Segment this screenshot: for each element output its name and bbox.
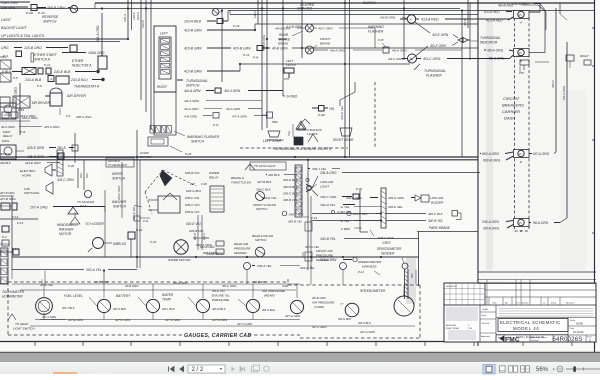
next page button (disabled) [232, 367, 236, 372]
junction box P-9 [3, 51, 22, 58]
bus top y10 right [228, 10, 594, 12]
left bottom extra wires [0, 191, 15, 270]
svg-text:427-L GRN: 427-L GRN [312, 325, 327, 329]
wire 13-A ORG vertical [560, 42, 567, 223]
ether injector A [72, 52, 107, 69]
svg-text:4I4-A GRN: 4I4-A GRN [184, 89, 201, 93]
svg-text:30I-S BLK: 30I-S BLK [338, 317, 352, 321]
svg-text:350-A: 350-A [57, 146, 66, 150]
vertical x404 [403, 0, 405, 60]
svg-text:30I-N BLK: 30I-N BLK [262, 308, 276, 312]
svg-text:FUEL LEVEL: FUEL LEVEL [64, 294, 83, 298]
page number box [188, 365, 225, 373]
svg-text:P-23: P-23 [136, 228, 142, 232]
svg-text:X: X [410, 18, 412, 22]
wire 243-A BLB row [24, 76, 104, 89]
front low-air switch [253, 192, 276, 212]
wire 340-B YEL right [340, 219, 443, 223]
svg-text:YY: YY [340, 302, 344, 306]
svg-text:(Ltrs): (Ltrs) [551, 302, 556, 305]
right angle bracket y212 [360, 190, 368, 232]
svg-text:4I3-C GRN: 4I3-C GRN [388, 57, 404, 61]
vertical 120 pair [123, 0, 136, 39]
svg-text:Scale: Scale [570, 320, 576, 322]
svg-text:SWITCH: SWITCH [363, 1, 377, 5]
svg-text:SENDER: SENDER [316, 258, 330, 262]
svg-text:WATER: WATER [162, 293, 174, 297]
svg-text:605-C VIO: 605-C VIO [185, 203, 200, 207]
svg-text:P-14: P-14 [311, 216, 317, 220]
svg-text:THERMOSTAT A: THERMOSTAT A [74, 85, 100, 89]
svg-text:336-B YEL: 336-B YEL [283, 198, 298, 202]
svg-text:PRESSURE: PRESSURE [234, 247, 252, 251]
sheet right outer border line [592, 0, 595, 352]
lamp triangle right [297, 124, 305, 130]
gauge battery [138, 297, 160, 313]
svg-text:ELECTRIC: ELECTRIC [20, 169, 36, 173]
svg-text:USED: USED [382, 241, 391, 245]
svg-text:NONE: NONE [576, 323, 583, 326]
wire 340-B YEL [320, 237, 419, 241]
svg-text:30I-E ORG: 30I-E ORG [312, 296, 327, 300]
svg-text:P-I4: P-I4 [253, 56, 259, 60]
vertical bus x141 [136, 0, 141, 100]
title block frame [444, 280, 596, 343]
bus top y8 [0, 8, 460, 10]
svg-text:340-F: 340-F [551, 80, 555, 88]
black wedge arrow [160, 170, 172, 186]
vertical bus x302 [301, 0, 303, 58]
mr driver box [0, 96, 51, 108]
wire P-16 mid [253, 56, 404, 62]
svg-text:525: 525 [410, 273, 414, 278]
svg-text:603-E VIO: 603-E VIO [186, 222, 201, 226]
svg-text:2 / 2: 2 / 2 [192, 367, 204, 373]
wire 415 vertical [463, 0, 468, 28]
svg-text:425-B GRN: 425-B GRN [27, 155, 45, 159]
svg-text:Checked: Checked [481, 323, 489, 325]
svg-text:I025 BLK: I025 BLK [108, 159, 121, 163]
wire 427-L GRN [312, 325, 327, 329]
svg-text:HOURMETER: HOURMETER [2, 295, 23, 299]
tachometer hourmeter label [2, 290, 25, 299]
svg-text:336-A ORG: 336-A ORG [320, 171, 337, 175]
svg-text:336-G ORG: 336-G ORG [388, 196, 405, 200]
to backup lights note [300, 119, 322, 136]
svg-text:P-33: P-33 [150, 240, 156, 244]
electric horn [20, 164, 56, 194]
svg-text:LIGHT: LIGHT [1, 18, 12, 22]
wire 402-D BLK [257, 178, 309, 184]
svg-text:427-K GRN: 427-K GRN [115, 318, 131, 322]
left edge connectors mid [0, 197, 38, 232]
vertical x419 boundary [418, 232, 420, 286]
svg-text:A: A [51, 77, 53, 81]
right rear turnsignal lamp [566, 55, 574, 68]
turnsignals brake lights label [272, 147, 332, 151]
wire horizontal y284 [12, 284, 300, 290]
svg-text:427-A GRN: 427-A GRN [360, 330, 376, 334]
svg-text:SWITCH: SWITCH [256, 207, 268, 211]
previous view button (disabled) [252, 365, 260, 372]
svg-text:TURNSIGNAL: TURNSIGNAL [186, 79, 208, 83]
circuit breakers carrier dash label [502, 96, 524, 121]
svg-text:30I-C ORG: 30I-C ORG [222, 284, 237, 288]
svg-text:56%: 56% [536, 367, 549, 373]
svg-text:FRACTIONAL: FRACTIONAL [446, 327, 460, 330]
svg-text:P-14: P-14 [358, 270, 364, 274]
svg-text:TO HCM LIGHT: TO HCM LIGHT [254, 164, 277, 168]
svg-text:Approved: Approved [481, 335, 490, 338]
wire 414-A GRN [184, 88, 283, 93]
previous page button [180, 367, 184, 372]
svg-text:SWITCH: SWITCH [112, 177, 126, 181]
wire 425-E GRN [27, 146, 74, 150]
svg-text:30I-E VIO: 30I-E VIO [212, 289, 225, 293]
wire 410-A ORG mid [314, 38, 463, 53]
wiper motor [128, 228, 191, 262]
svg-text:SPEEDOMETER: SPEEDOMETER [377, 247, 402, 251]
engine oil pressure label [212, 289, 230, 302]
wire 413-B GRN [184, 64, 410, 74]
viewer toolbar [0, 362, 600, 374]
wire 120-A RED [484, 10, 512, 14]
turnsignal connector lower rows [154, 92, 268, 135]
turnsignal brake lights dashed box [240, 82, 375, 148]
svg-text:104-A: 104-A [136, 12, 140, 20]
svg-text:SWITCH: SWITCH [43, 20, 57, 24]
svg-text:307-A YEL: 307-A YEL [305, 245, 320, 249]
lamp triangles left [296, 121, 318, 142]
circuit breaker dashed column [515, 18, 530, 231]
svg-text:INDICATOR: INDICATOR [480, 41, 498, 45]
bus 120-B ORG horizontal [0, 39, 128, 42]
wire 118-A ORG [529, 221, 560, 225]
warning flasher switch [150, 126, 220, 144]
svg-text:-0 BLK: -0 BLK [1, 70, 12, 74]
svg-text:-340-C BLK: -340-C BLK [288, 212, 305, 216]
svg-text:FRONT: FRONT [320, 37, 331, 41]
svg-text:413-A RED: 413-A RED [421, 18, 439, 22]
wire 415-A ORG [484, 49, 514, 53]
svg-text:118-B: 118-B [141, 20, 145, 28]
wiper small boxes right [200, 241, 224, 255]
svg-text:LIGHT SWITCH: LIGHT SWITCH [13, 327, 35, 331]
svg-text:ETHER: ETHER [72, 59, 84, 63]
svg-text:334-E YEL: 334-E YEL [340, 105, 344, 120]
svg-text:P-14 RED: P-14 RED [283, 95, 298, 99]
wire 340A ORG top label [62, 51, 105, 55]
wire 603-B ORG [483, 156, 514, 163]
washer switch label [112, 200, 142, 209]
svg-text:BLK: BLK [85, 173, 89, 178]
svg-text:525 C NOT: 525 C NOT [378, 236, 395, 240]
svg-text:SWITCHING: SWITCHING [24, 191, 39, 195]
svg-text:ETHER START: ETHER START [34, 53, 58, 57]
wire 340-C BLK right [347, 211, 458, 217]
svg-text:P-1A: P-1A [12, 215, 18, 219]
wire P-14 left bottom [0, 247, 19, 255]
svg-text:30I-A ORG: 30I-A ORG [173, 281, 188, 285]
title block fmc row [444, 335, 596, 344]
wire 410-B GRN mid [184, 46, 478, 58]
air pressure rear label [261, 289, 286, 298]
svg-text:348 BLK: 348 BLK [0, 161, 11, 165]
svg-text:Ltr: Ltr [543, 302, 546, 305]
wire 336-C ORG [312, 187, 378, 200]
sheet bottom border line with zone ticks [0, 342, 594, 347]
svg-text:605-F VIO: 605-F VIO [185, 196, 200, 200]
wire 603-E VIO [186, 222, 213, 247]
wire 336-H YEL [340, 205, 403, 209]
svg-text:BRAKE: BRAKE [278, 42, 289, 46]
svg-text:P-26: P-26 [185, 152, 192, 156]
svg-text:P-6D: P-6D [26, 11, 34, 15]
1025 blk heading note [106, 158, 134, 167]
svg-text:6I4-A ORG: 6I4-A ORG [562, 85, 566, 100]
svg-text:103-A RED: 103-A RED [184, 20, 202, 24]
front brake lamp [306, 37, 332, 54]
vertical bus x222 [221, 10, 223, 82]
svg-text:3I8 BLK: 3I8 BLK [0, 152, 10, 156]
wire 301-J BLK [62, 306, 76, 310]
svg-text:TO HEAD: TO HEAD [15, 322, 29, 326]
wire 301-A ORG breaker [483, 225, 514, 231]
svg-text:TO H.EATER: TO H.EATER [85, 222, 105, 226]
wire 603-A ORG [480, 152, 514, 156]
left edge labels y125 [1, 125, 60, 129]
svg-text:SENDER: SENDER [234, 251, 247, 255]
svg-text:30-B ORG: 30-B ORG [125, 284, 139, 288]
svg-text:207-A ORG: 207-A ORG [29, 206, 48, 210]
yel rotated label [287, 124, 293, 137]
svg-text:DASH: DASH [504, 116, 515, 121]
svg-text:BREAKERS: BREAKERS [502, 103, 524, 108]
left edge stack box 1 [0, 55, 11, 69]
svg-text:30I-F BLK: 30I-F BLK [358, 321, 372, 325]
svg-text:4I3-E GRN: 4I3-E GRN [432, 33, 449, 37]
svg-text:408-B GRN: 408-B GRN [47, 6, 65, 10]
rear brake lamp [275, 7, 375, 49]
svg-text:408-A ORG: 408-A ORG [96, 25, 100, 42]
svg-text:-B YEL: -B YEL [340, 219, 350, 223]
wire 425-B GRN [27, 153, 64, 159]
svg-text:AIR PRESSURE: AIR PRESSURE [311, 301, 335, 305]
vertical x122 lower [117, 162, 122, 218]
circuit breaker A [514, 4, 541, 25]
svg-text:120-A: 120-A [123, 14, 127, 22]
svg-text:P-48: P-48 [68, 164, 74, 168]
warning flasher circle X1 [400, 15, 419, 23]
relay blob dark [267, 137, 303, 145]
wire P-14 mid [303, 216, 317, 220]
wire 427-G GRN [165, 318, 181, 322]
svg-text:BRAKE &: BRAKE & [231, 176, 244, 180]
speedo cable pair [405, 269, 417, 299]
svg-text:F-36: F-36 [201, 182, 207, 186]
svg-text:SWITCH: SWITCH [140, 155, 153, 159]
vertical pair x345 [340, 0, 350, 157]
rear air pressure sender [234, 242, 252, 270]
svg-text:427-H GRN: 427-H GRN [285, 314, 301, 318]
wire 427-H GRN [285, 314, 301, 318]
svg-text:P7F: P7F [284, 77, 290, 81]
reverse switch circle mid [212, 9, 222, 16]
left edge stack box 2 [0, 73, 18, 82]
wire 323-C BRN [320, 257, 357, 262]
svg-text:RIGHT: RIGHT [580, 54, 589, 58]
svg-text:II8-A ORG: II8-A ORG [533, 221, 549, 225]
svg-text:603-B ORG: 603-B ORG [483, 159, 501, 163]
svg-text:P-13: P-13 [17, 221, 23, 225]
svg-text:605-B VIO: 605-B VIO [185, 171, 200, 175]
mode connector vertical [57, 150, 63, 176]
svg-text:4I3-B: 4I3-B [463, 19, 467, 26]
svg-text:Hydraulic Crane: Hydraulic Crane [531, 336, 547, 339]
svg-text:SWITCH: SWITCH [255, 238, 267, 242]
svg-text:ANGULAR: ANGULAR [446, 324, 457, 327]
svg-text:4I0-B GRN: 4I0-B GRN [275, 27, 291, 31]
air dryer [45, 88, 86, 106]
svg-text:RIGHT: RIGHT [157, 85, 168, 89]
layout button single page (selected) [483, 365, 495, 374]
svg-text:TURNSIGNALS & BRAKE LIGHTS: TURNSIGNALS & BRAKE LIGHTS [272, 147, 332, 151]
gauge speedometer [394, 292, 414, 316]
svg-text:303-A YEL: 303-A YEL [86, 268, 102, 272]
svg-text:P-8: P-8 [66, 114, 71, 118]
ether start switch [31, 45, 77, 67]
bus top y3 [95, 2, 594, 4]
fuel level label [64, 294, 83, 298]
rear brake label [279, 25, 302, 42]
wire 427-E GRN [40, 318, 84, 322]
svg-text:427-V GRN: 427-V GRN [237, 322, 253, 326]
svg-text:336-C BLK: 336-C BLK [256, 188, 272, 192]
vertical bus x151 [150, 0, 152, 130]
svg-text:WARNING FLASHER: WARNING FLASHER [187, 135, 220, 139]
wire junction dots [101, 2, 463, 272]
sender drop wires [247, 266, 404, 298]
svg-text:P-19: P-19 [233, 24, 240, 28]
svg-text:33P-B BLK: 33P-B BLK [283, 185, 299, 189]
wire backup light labels [1, 18, 45, 38]
speedometer label [360, 289, 386, 293]
svg-text:REAR AIR: REAR AIR [234, 242, 249, 246]
wire 303-A YEL [12, 268, 137, 272]
left edge small boxes y112 [0, 112, 36, 121]
svg-text:P-6: P-6 [37, 84, 42, 88]
title block top line [478, 271, 596, 273]
svg-text:II0-A RED: II0-A RED [300, 3, 315, 7]
gauges carrier cab title [184, 333, 251, 339]
wire 301-F BLK [358, 321, 372, 325]
rear lamp x570 [580, 54, 591, 65]
gauge water temp [188, 297, 210, 313]
svg-text:6I7-A ORG: 6I7-A ORG [533, 152, 550, 156]
svg-text:425-C GRN: 425-C GRN [117, 186, 121, 200]
wire 338-A YEL [252, 264, 315, 270]
svg-text:LOW-AIR: LOW-AIR [320, 180, 334, 184]
vertical x470 [469, 3, 471, 60]
battery label [116, 294, 131, 298]
vertical pair x199 [193, 215, 206, 250]
circuit breaker B [514, 49, 530, 64]
relay column left [3, 108, 24, 151]
zoom slider [566, 366, 600, 372]
last page button (disabled) [240, 367, 245, 372]
svg-text:MAIN: MAIN [2, 139, 10, 143]
turnsignal switch connector box [154, 26, 176, 92]
svg-text:LIFT: LIFT [516, 54, 522, 58]
svg-text:243-D BLU: 243-D BLU [70, 78, 88, 82]
horn connector circle [68, 190, 94, 214]
svg-text:4I5-A ORG: 4I5-A ORG [487, 49, 504, 53]
right rear lamp [333, 128, 354, 142]
wire 336-M YEL [320, 203, 355, 214]
svg-text:340A ORG: 340A ORG [206, 252, 224, 256]
svg-text:425-C GRN: 425-C GRN [57, 178, 74, 182]
svg-text:Drawn: Drawn [481, 315, 487, 317]
gauge air pressure yard [340, 302, 359, 317]
svg-text:336-H XEL: 336-H XEL [388, 205, 403, 209]
svg-text:337-B BLK: 337-B BLK [257, 180, 273, 184]
svg-text:30I-A ORG: 30I-A ORG [483, 227, 500, 231]
svg-text:338-A YEL: 338-A YEL [257, 264, 272, 268]
svg-text:WIPER MOTOR: WIPER MOTOR [168, 258, 191, 262]
air pressure yard label [311, 296, 335, 309]
vertical pair x309 low [305, 160, 312, 270]
wire 413-A RED [421, 18, 510, 22]
svg-text:LIGHT: LIGHT [320, 185, 330, 189]
wire 207-A ORG [29, 206, 105, 213]
svg-text:FRONT: FRONT [286, 63, 297, 67]
svg-text:SWITCH: SWITCH [113, 205, 127, 209]
vertical bus x267 [262, 0, 267, 128]
svg-text:WASHER: WASHER [59, 228, 74, 232]
svg-text:X2: X2 [410, 57, 414, 61]
zoom out circle [557, 366, 563, 372]
wire 301-K BLK [113, 307, 127, 311]
wire 106-A RED [512, 2, 545, 10]
svg-text:RELAY: RELAY [3, 134, 13, 138]
wire 301-S BLK [338, 317, 352, 321]
svg-text:GAUGES, CARRIER CAB: GAUGES, CARRIER CAB [184, 333, 251, 339]
svg-text:427-G GRN: 427-G GRN [165, 318, 181, 322]
svg-text:WINDSHIELD: WINDSHIELD [57, 223, 78, 227]
svg-text:RELAY: RELAY [209, 176, 220, 180]
svg-text:2: 2 [589, 339, 591, 343]
gauge air pressure rear [290, 300, 303, 313]
svg-text:MOTOR: MOTOR [59, 232, 72, 236]
svg-text:340-B YEL: 340-B YEL [320, 237, 336, 241]
wire 617-A ORG [529, 152, 556, 156]
svg-text:ORG: ORG [1, 46, 9, 50]
wire 415-C ORG [480, 55, 514, 61]
wire 427-V GRN [237, 322, 253, 326]
wiper switch label [112, 172, 126, 181]
svg-text:-H YEL: -H YEL [340, 205, 350, 209]
wiper relay labels [185, 171, 220, 214]
svg-text:Qty/Ms: Qty/Ms [482, 308, 488, 311]
svg-text:SENDER: SENDER [381, 252, 395, 256]
svg-text:A: A [519, 21, 522, 25]
page bottom edge [0, 352, 600, 354]
svg-text:FMC: FMC [505, 337, 520, 344]
svg-text:PRESSURE: PRESSURE [212, 298, 230, 302]
wire 340A ORG bus [12, 252, 419, 257]
svg-text:P-6R: P-6R [318, 113, 326, 117]
svg-text:I20-A RED: I20-A RED [297, 7, 313, 11]
